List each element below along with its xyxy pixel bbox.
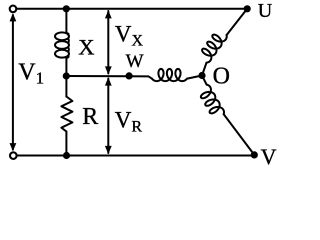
arrow Vx shaft (107, 11, 109, 74)
wire: X bottom lead to node W junction and resistor top lead (65, 58, 67, 97)
svg-text:W: W (126, 51, 144, 72)
arrowhead Vx bottom (105, 66, 112, 74)
arrowhead Vr bottom (105, 146, 112, 154)
resistor R (61, 97, 72, 132)
wire: R bottom lead (65, 132, 67, 156)
terminal circle bottom-left (10, 152, 17, 159)
junction dot middle of branch (63, 72, 70, 79)
terminal U dot (244, 5, 251, 12)
inductor X (55, 32, 69, 40)
arrow Vr shaft (107, 79, 109, 154)
svg-text:X: X (78, 34, 94, 59)
arrow V1 shaft (12, 15, 14, 150)
wire: coil to node O (187, 76, 202, 79)
bottom wire (17, 155, 254, 157)
arrowhead Vr top (105, 77, 112, 85)
junction dot top of branch (63, 5, 70, 12)
node W dot (126, 72, 133, 79)
top wire (17, 8, 248, 10)
wire: node O to U-phase coil (202, 63, 206, 76)
svg-text:U: U (258, 0, 273, 22)
junction dot bottom of branch (63, 152, 70, 159)
terminal V dot (251, 151, 258, 158)
wire: V coil to terminal V (224, 114, 255, 155)
inductor U-phase (202, 35, 227, 63)
svg-text:R: R (82, 104, 98, 130)
arrowhead V1 top (10, 13, 17, 21)
node O dot (198, 72, 205, 79)
arrowhead Vx top (105, 10, 112, 18)
terminal circle top-left (10, 6, 17, 13)
wire: W horizontal wire (66, 76, 151, 79)
svg-text:O: O (213, 63, 230, 89)
wire: X-R branch top lead (65, 9, 67, 33)
inductor V-phase (201, 85, 224, 115)
wire: U coil to terminal U (227, 9, 248, 35)
arrowhead V1 bottom (10, 143, 17, 151)
inductor between W and O (152, 69, 187, 81)
svg-text:V: V (261, 144, 277, 168)
wire: node O to V-phase coil (202, 76, 207, 85)
